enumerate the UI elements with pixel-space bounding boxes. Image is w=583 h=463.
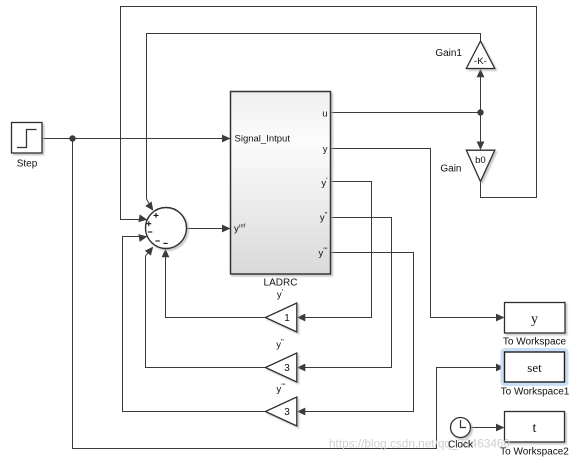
- step source Step: [12, 123, 43, 170]
- block To Workspace2 (t): [505, 412, 565, 443]
- wire feedback gain 3b output to Sum minus input: [123, 237, 266, 412]
- arrowhead into feedback gain 1: [297, 314, 306, 322]
- arrowhead into Sum from gain 3b: [138, 233, 148, 242]
- svg-text:Step: Step: [17, 159, 38, 170]
- wire Gain b0 output to Sum plus input: [121, 7, 537, 220]
- wire LADRC y' output to feedback gain 1: [299, 182, 372, 318]
- subsystem LADRC: [231, 92, 331, 289]
- svg-text:Gain: Gain: [440, 164, 461, 175]
- svg-text:y': y': [277, 287, 284, 301]
- gain Gain1 (-K-): [435, 41, 494, 69]
- block To Workspace (y): [503, 303, 567, 348]
- label Clock: [448, 440, 474, 451]
- arrowhead into Sum from gain 1: [162, 249, 170, 258]
- svg-text:1: 1: [284, 313, 290, 324]
- arrowhead into feedback gain 3: [297, 364, 306, 372]
- svg-text:3: 3: [284, 407, 290, 418]
- svg-text:t: t: [533, 421, 537, 436]
- svg-text:Clock: Clock: [448, 440, 474, 451]
- arrowhead into LADRC yref: [222, 225, 231, 233]
- svg-text:y'': y'': [276, 337, 284, 351]
- svg-text:set: set: [527, 360, 542, 375]
- watermark: [329, 437, 510, 451]
- block To Workspace1 (set) selected: [501, 348, 570, 398]
- svg-text:3: 3: [284, 363, 290, 374]
- junction node Step output: [69, 135, 75, 141]
- gain y'' feedback (3): [265, 337, 296, 382]
- svg-text:b0: b0: [475, 155, 486, 166]
- wire feedback gain 3 output to Sum minus input: [146, 249, 266, 368]
- svg-text:Signal_Intput: Signal_Intput: [235, 134, 291, 145]
- arrowhead into feedback gain 3b: [297, 408, 306, 416]
- wire LADRC y'' output to feedback gain 3: [299, 218, 392, 368]
- wire LADRC y output to To Workspace (y): [331, 149, 503, 318]
- arrowhead into LADRC Signal_Intput: [222, 135, 231, 143]
- wire Sum output to LADRC yref: [187, 228, 230, 230]
- wire Step output to LADRC Signal_Intput: [43, 138, 230, 140]
- wire junction up to Gain1 input: [480, 78, 482, 113]
- arrowhead into To Workspace (y): [496, 314, 505, 322]
- wire feedback gain 1 output to Sum minus input: [166, 250, 266, 318]
- svg-text:y''': y''': [276, 382, 286, 396]
- svg-text:u: u: [322, 109, 327, 120]
- wire Clock to To Workspace2 (t): [471, 427, 503, 429]
- wire Gain1 output to Sum plus input: [147, 34, 481, 209]
- junction node u output: [477, 109, 483, 115]
- gain y''' feedback (3): [265, 382, 296, 427]
- wire junction down to Gain b0 input: [480, 113, 482, 149]
- svg-text:To Workspace2: To Workspace2: [500, 447, 569, 458]
- arrowhead into To Workspace2 (t): [496, 424, 505, 432]
- arrowhead into Gain b0: [477, 142, 485, 151]
- arrowhead into Sum from Gain b0: [138, 214, 148, 223]
- wire Step branch to To Workspace1 (set): [73, 139, 503, 449]
- wire LADRC y''' output to feedback gain 3b: [299, 253, 414, 412]
- wire LADRC u output to gain junction: [331, 112, 481, 114]
- svg-text:y: y: [531, 312, 538, 327]
- svg-text:https://blog.csdn.net/qq_38463: https://blog.csdn.net/qq_38463460: [329, 437, 510, 451]
- svg-text:To Workspace1: To Workspace1: [501, 387, 570, 398]
- arrowhead into Sum from gain 3: [145, 244, 156, 256]
- svg-text:y: y: [323, 144, 328, 155]
- clock Clock: [451, 418, 471, 438]
- arrowhead into Gain1: [477, 69, 485, 78]
- arrowhead into To Workspace1 (set): [496, 364, 505, 372]
- gain y' feedback (1): [265, 287, 296, 332]
- sum block Sum: [146, 208, 187, 249]
- svg-text:LADRC: LADRC: [264, 278, 298, 289]
- gain Gain (b0): [440, 150, 494, 181]
- label To Workspace2: [500, 447, 569, 458]
- svg-text:-K-: -K-: [474, 56, 487, 67]
- svg-text:Gain1: Gain1: [435, 48, 462, 59]
- arrowhead into Sum from Gain1: [145, 202, 156, 213]
- svg-text:To Workspace: To Workspace: [503, 337, 567, 348]
